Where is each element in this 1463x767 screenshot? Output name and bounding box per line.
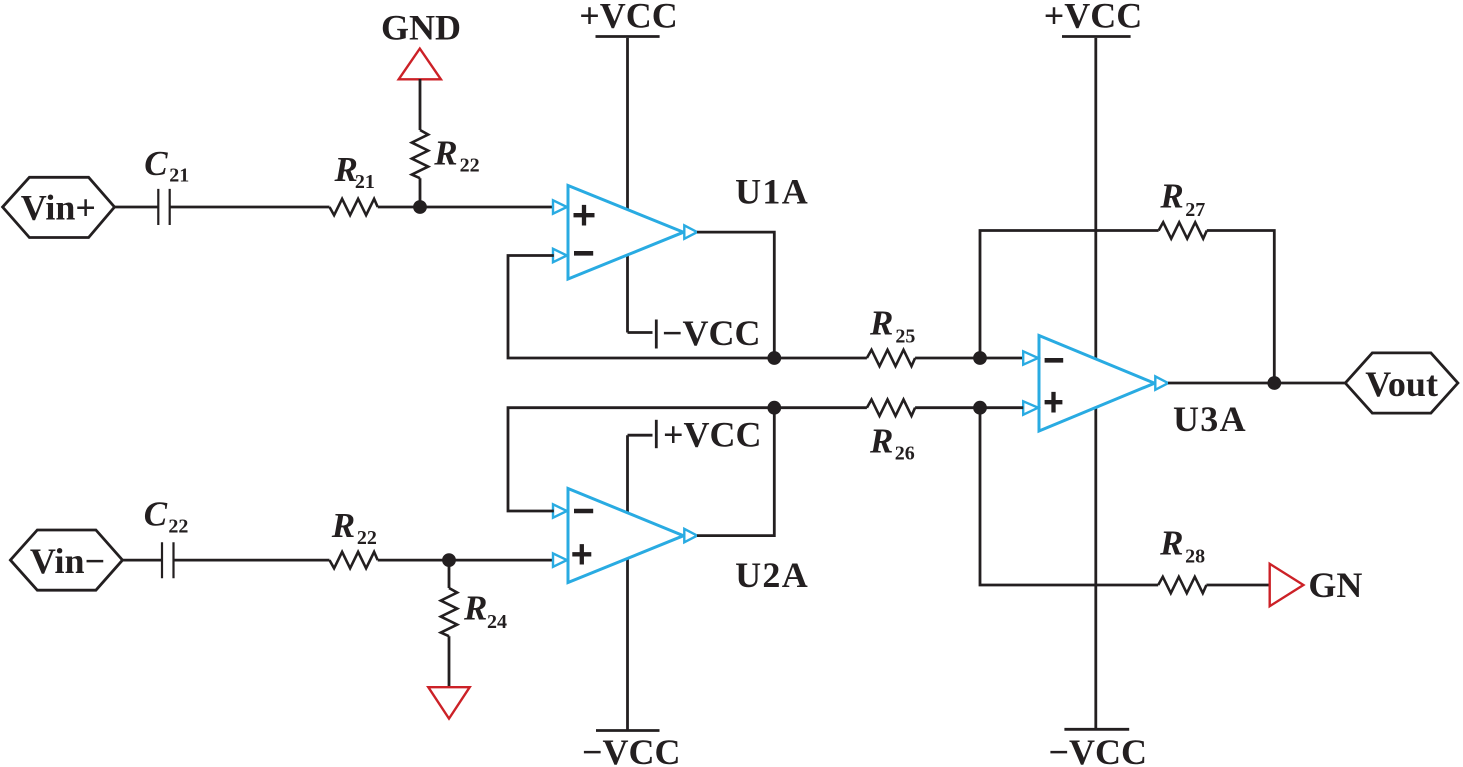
- port Vin-: [10, 530, 122, 590]
- svg-text:24: 24: [487, 611, 507, 633]
- wire U1A output down to node: [697, 232, 774, 358]
- capacitor C22: [162, 542, 174, 578]
- svg-text:−VCC: −VCC: [582, 732, 681, 767]
- svg-text:U1A: U1A: [735, 171, 809, 211]
- svg-text:25: 25: [895, 325, 915, 347]
- svg-text:R: R: [1159, 176, 1183, 215]
- resistor R21: [330, 199, 378, 215]
- svg-text:R: R: [433, 133, 457, 172]
- svg-text:U3A: U3A: [1173, 399, 1247, 439]
- resistor R24: [441, 588, 457, 636]
- resistor R22 (second): [330, 552, 378, 568]
- wire R22 to node: [419, 178, 422, 203]
- node U1A output junction: [767, 351, 781, 365]
- svg-text:−VCC: −VCC: [1049, 732, 1148, 767]
- -VCC pin label U1A: [628, 331, 653, 334]
- ground port GN: [1270, 564, 1304, 606]
- -VCC rail bottom left: [596, 729, 660, 732]
- svg-text:GND: GND: [381, 8, 461, 48]
- svg-text:+VCC: +VCC: [579, 0, 678, 36]
- svg-text:27: 27: [1185, 199, 1205, 221]
- svg-text:28: 28: [1185, 545, 1205, 567]
- node R21/R22 junction: [413, 200, 427, 214]
- wire R27 feedback loop: [980, 231, 1274, 384]
- svg-text:22: 22: [460, 154, 480, 176]
- -VCC rail bottom right: [1064, 728, 1129, 731]
- svg-text:U2A: U2A: [735, 555, 809, 595]
- svg-text:R: R: [1159, 524, 1183, 563]
- svg-text:Vin−: Vin−: [30, 541, 105, 581]
- svg-text:C: C: [144, 495, 168, 534]
- wire R25 to U3A -input: [915, 357, 1023, 360]
- wire U3A output to Vout: [1168, 382, 1346, 385]
- resistor R25: [867, 350, 915, 366]
- svg-text:R: R: [869, 421, 893, 460]
- svg-text:R: R: [463, 589, 487, 628]
- svg-text:+VCC: +VCC: [1044, 0, 1143, 36]
- capacitor C21: [158, 189, 169, 225]
- wire node to R24: [448, 566, 451, 588]
- ground triangle bottom left: [428, 687, 469, 718]
- svg-text:21: 21: [169, 164, 189, 186]
- node R25/R27 junction: [973, 351, 987, 365]
- resistor R26: [867, 400, 915, 416]
- wire Vin- to C22: [123, 559, 162, 562]
- node output/R27 junction: [1267, 376, 1281, 390]
- svg-text:21: 21: [355, 171, 375, 193]
- op-amp U3A: [1039, 336, 1155, 432]
- resistor R22: [412, 130, 428, 178]
- svg-text:Vout: Vout: [1365, 364, 1438, 404]
- wire R22 to U2A +input: [378, 559, 554, 562]
- svg-text:22: 22: [357, 527, 377, 549]
- wire U2A output up to node: [697, 408, 774, 536]
- resistor R28: [1158, 577, 1206, 593]
- resistor R27: [1159, 222, 1207, 238]
- wire R26 to U3A +input: [915, 406, 1023, 409]
- port Vin+: [3, 177, 115, 237]
- +VCC pin label U2A: [626, 435, 629, 730]
- wire R24 to ground: [448, 636, 451, 687]
- svg-text:C: C: [144, 144, 168, 183]
- svg-text:R: R: [331, 506, 355, 545]
- port Vout: [1345, 353, 1458, 413]
- svg-text:Vin+: Vin+: [21, 188, 96, 228]
- wire C22 to R22: [174, 559, 330, 562]
- wire Vin+ to C21: [115, 206, 159, 209]
- wire GND to R22: [419, 79, 422, 130]
- svg-text:+VCC: +VCC: [663, 414, 762, 454]
- svg-text:R: R: [869, 304, 893, 343]
- node U2A output junction: [767, 401, 781, 415]
- op-amp U2A: [568, 489, 684, 583]
- svg-text:26: 26: [895, 442, 915, 464]
- node R22/R24 junction: [442, 553, 456, 567]
- svg-text:GN: GN: [1308, 565, 1362, 605]
- wire C21 to R21: [170, 206, 330, 209]
- node R26/R28 junction: [973, 401, 987, 415]
- wire U2A feedback loop: [508, 408, 867, 511]
- wire node to R28: [980, 408, 1270, 585]
- svg-text:22: 22: [168, 515, 188, 537]
- wire U1A feedback loop: [508, 256, 867, 359]
- svg-text:−VCC: −VCC: [662, 313, 761, 353]
- op-amp U1A: [568, 186, 684, 280]
- wire R21 to U1A +input: [378, 206, 554, 209]
